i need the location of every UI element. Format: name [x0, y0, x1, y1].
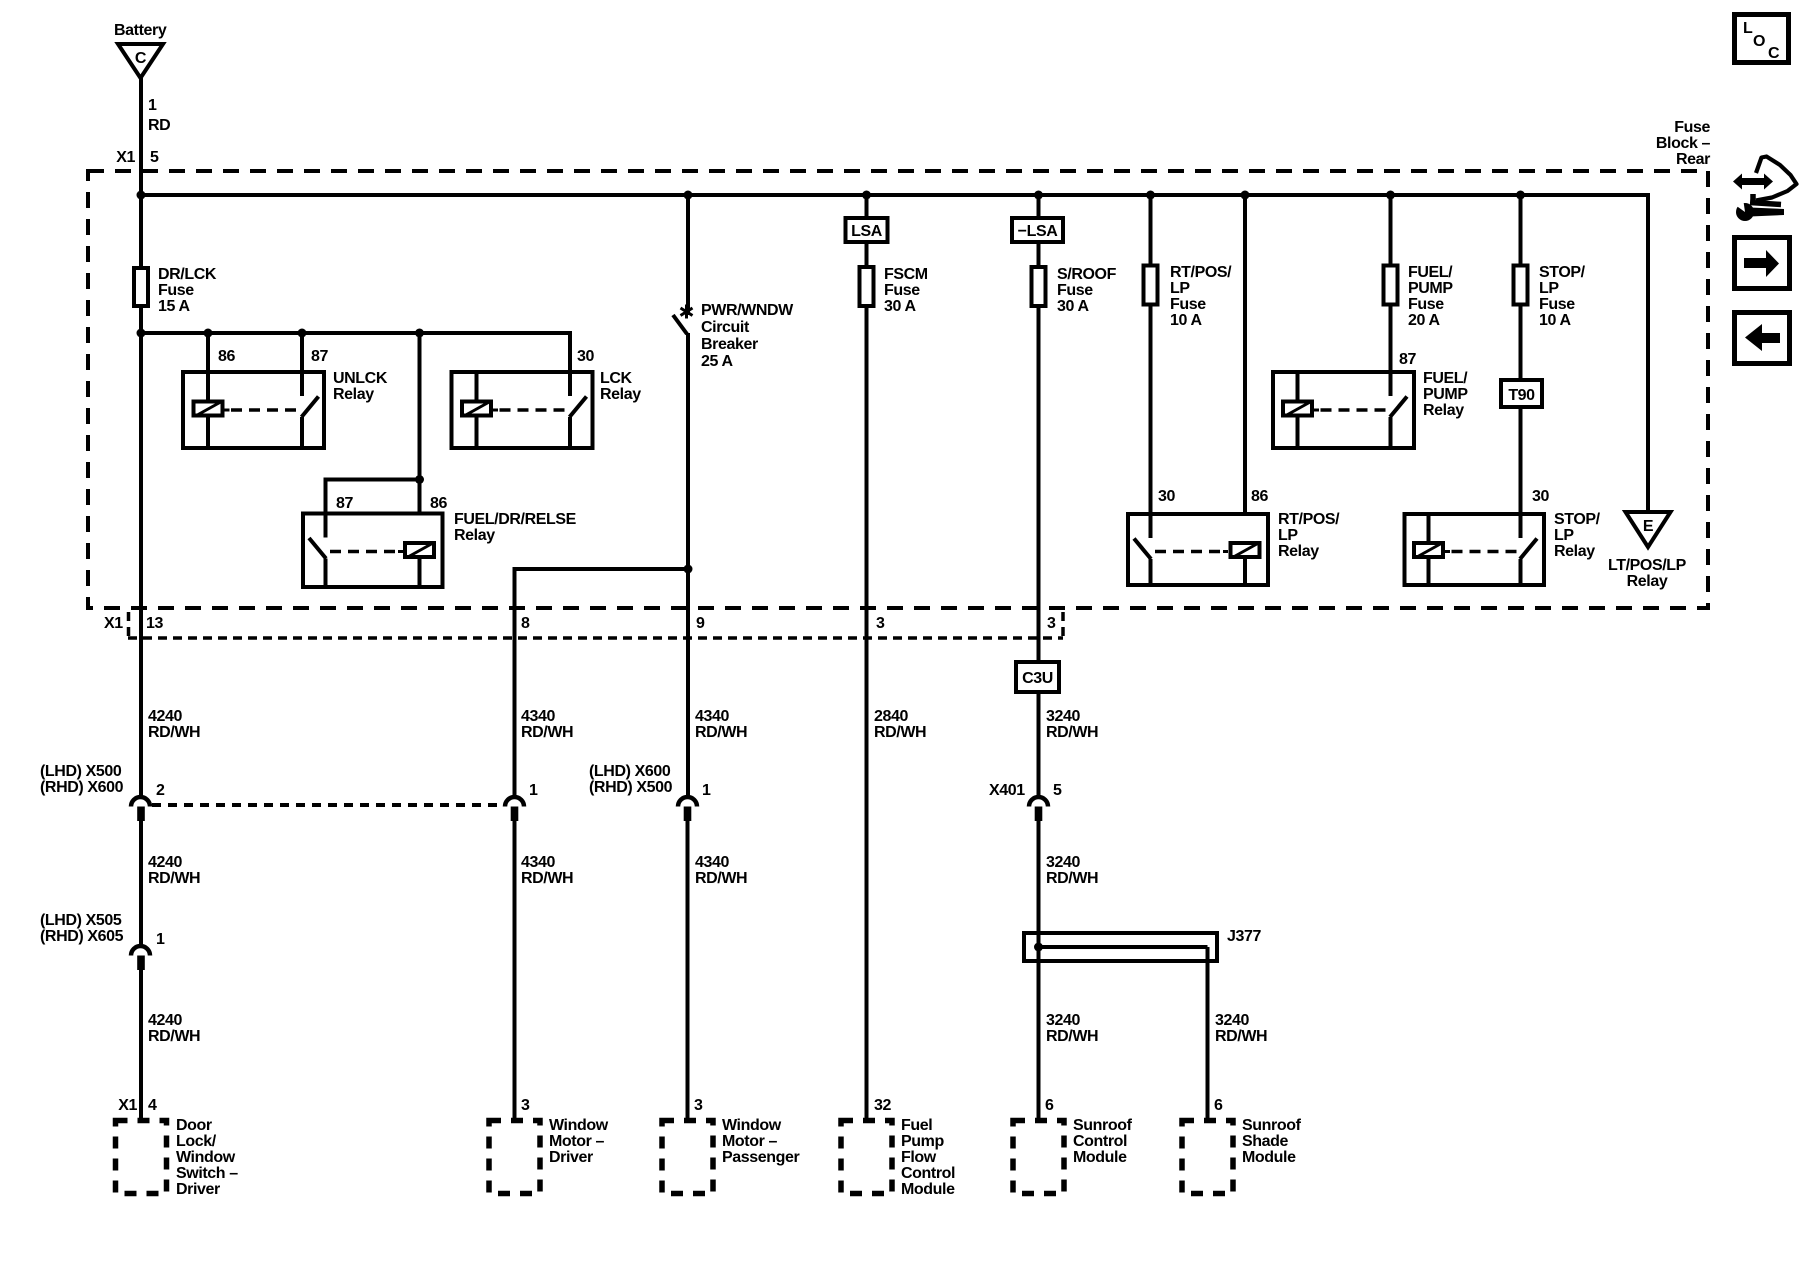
wire PWR/WNDW breaker upper: [686, 195, 690, 315]
svg-text:RD/WH: RD/WH: [1046, 870, 1098, 887]
svg-text:(LHD) X500: (LHD) X500: [40, 763, 122, 780]
svg-text:Switch –: Switch –: [176, 1165, 238, 1182]
junction dot bus RT/POS fuse: [1146, 191, 1155, 200]
svg-text:Block –: Block –: [1656, 135, 1711, 152]
svg-text:4: 4: [148, 1097, 157, 1114]
svg-text:RD/WH: RD/WH: [1046, 724, 1098, 741]
wire FUEL/PUMP column: [1389, 195, 1393, 370]
wire label 3240 RD/WH sunroof mid: [1046, 854, 1098, 887]
svg-text:(LHD) X505: (LHD) X505: [40, 912, 122, 929]
module Window Motor Passenger name label: [722, 1117, 800, 1166]
svg-text:PUMP: PUMP: [1408, 280, 1453, 297]
svg-text:1: 1: [148, 97, 157, 114]
svg-text:Relay: Relay: [333, 386, 374, 403]
svg-text:3240: 3240: [1046, 854, 1080, 871]
nav icon double arrow with wrench: [1731, 157, 1797, 222]
svg-text:Control: Control: [1073, 1133, 1127, 1150]
wire label 4240 RD/WH mid: [148, 854, 200, 887]
wire FSCM column: [865, 195, 869, 1118]
svg-text:RD: RD: [148, 117, 170, 134]
svg-text:LSA: LSA: [851, 223, 883, 240]
svg-text:3240: 3240: [1046, 1012, 1080, 1029]
breaker PWR/WNDW label: [701, 302, 794, 370]
ground symbol E triangle LT/POS/LP: [1626, 512, 1671, 547]
wire label 4240 RD/WH lower: [148, 1012, 200, 1045]
svg-text:C3U: C3U: [1022, 670, 1053, 687]
connector label X505/X605: [40, 912, 124, 945]
wire window motor driver lower: [513, 821, 517, 1118]
wire driver column below X500: [139, 821, 143, 946]
wire label 4240 RD/WH upper: [148, 708, 200, 741]
svg-text:PWR/WNDW: PWR/WNDW: [701, 302, 794, 319]
svg-text:Relay: Relay: [600, 386, 641, 403]
fuse STOP/LP label: [1539, 264, 1586, 329]
relay RT/POS/LP name label: [1278, 511, 1340, 560]
connector label X600/X500: [589, 763, 673, 796]
module Sunroof Shade name label: [1242, 1117, 1302, 1166]
fuse FUEL/PUMP: [1384, 266, 1398, 305]
wire UNLCK pin 86: [206, 333, 210, 370]
svg-text:4240: 4240: [148, 1012, 182, 1029]
wire label 4340 RD/WH passenger lower: [695, 854, 747, 887]
svg-text:(RHD) X605: (RHD) X605: [40, 928, 124, 945]
svg-text:20 A: 20 A: [1408, 312, 1440, 329]
svg-text:RT/POS/: RT/POS/: [1278, 511, 1340, 528]
fuse DR/LCK: [134, 268, 148, 306]
svg-text:X1: X1: [104, 615, 123, 632]
junction dot bus STOP/LP: [1516, 191, 1525, 200]
svg-text:1: 1: [156, 931, 165, 948]
svg-text:3: 3: [521, 1097, 530, 1114]
svg-text:RT/POS/: RT/POS/: [1170, 264, 1232, 281]
svg-text:32: 32: [874, 1097, 891, 1114]
wire DR/LCK column upper: [139, 195, 143, 266]
wire DR/LCK fuse to sub-bus: [139, 308, 143, 333]
wire FUEL/DR/RELSE pin 87 branch: [326, 480, 420, 512]
svg-text:3: 3: [694, 1097, 703, 1114]
relay STOP/LP name label: [1554, 511, 1601, 560]
module Fuel Pump Flow Control Module: [841, 1121, 892, 1194]
svg-text:LP: LP: [1539, 280, 1559, 297]
svg-text:Relay: Relay: [454, 527, 495, 544]
svg-text:87: 87: [311, 348, 328, 365]
module Window Motor Passenger: [662, 1121, 713, 1194]
svg-text:RD/WH: RD/WH: [695, 724, 747, 741]
module Window Motor Driver: [489, 1121, 540, 1194]
svg-text:1: 1: [702, 782, 711, 799]
svg-text:Relay: Relay: [1278, 543, 1319, 560]
svg-text:Breaker: Breaker: [701, 336, 758, 353]
svg-text:Motor –: Motor –: [722, 1133, 777, 1150]
LSA box: [846, 218, 888, 242]
svg-text:(RHD) X600: (RHD) X600: [40, 779, 124, 796]
svg-text:Flow: Flow: [901, 1149, 937, 1166]
circuit breaker PWR/WNDW symbol: [673, 305, 693, 335]
module Door Lock/Window Switch Driver: [116, 1121, 167, 1194]
wire sunroof control mid: [1037, 821, 1041, 1118]
svg-text:FUEL/: FUEL/: [1423, 370, 1468, 387]
svg-text:X401: X401: [989, 782, 1025, 799]
junction dot sub-bus left: [137, 329, 146, 338]
module Door Lock name label: [176, 1117, 238, 1198]
svg-text:3240: 3240: [1046, 708, 1080, 725]
svg-text:6: 6: [1045, 1097, 1054, 1114]
svg-text:4340: 4340: [695, 708, 729, 725]
svg-text:RD/WH: RD/WH: [695, 870, 747, 887]
svg-text:15 A: 15 A: [158, 298, 190, 315]
fuse block name label: [1656, 119, 1711, 168]
relay LCK: [452, 370, 593, 450]
svg-text:LP: LP: [1170, 280, 1190, 297]
relay LCK name label: [600, 370, 641, 403]
svg-text:25 A: 25 A: [701, 353, 733, 370]
svg-text:30 A: 30 A: [884, 298, 916, 315]
svg-text:RD/WH: RD/WH: [521, 724, 573, 741]
wire label 3240 RD/WH shade lower: [1215, 1012, 1267, 1045]
svg-text:4340: 4340: [521, 854, 555, 871]
wire label 1 RD: [148, 97, 170, 134]
svg-text:3: 3: [876, 615, 885, 632]
fuse S/ROOF label: [1057, 266, 1117, 315]
svg-text:Battery: Battery: [114, 22, 167, 39]
svg-text:FUEL/: FUEL/: [1408, 264, 1453, 281]
relay FUEL/PUMP name label: [1423, 370, 1468, 419]
svg-text:STOP/: STOP/: [1539, 264, 1586, 281]
fuse DR/LCK label: [158, 266, 217, 315]
module Window Motor Driver name label: [549, 1117, 609, 1166]
junction dot sub-bus UNLCK 87: [298, 329, 307, 338]
svg-text:Door: Door: [176, 1117, 212, 1134]
svg-text:13: 13: [146, 615, 163, 632]
svg-text:Relay: Relay: [1554, 543, 1595, 560]
svg-text:6: 6: [1214, 1097, 1223, 1114]
svg-text:2: 2: [156, 782, 165, 799]
svg-text:RD/WH: RD/WH: [1215, 1028, 1267, 1045]
relay FUEL/DR/RELSE name label: [454, 511, 577, 544]
svg-text:Passenger: Passenger: [722, 1149, 800, 1166]
junction dot pin 87 branch: [415, 475, 424, 484]
wire driver column lower: [139, 970, 143, 1118]
inline connector X401 pin 5: [1029, 797, 1048, 821]
svg-text:RD/WH: RD/WH: [874, 724, 926, 741]
svg-text:86: 86: [430, 495, 447, 512]
wire label 2840 RD/WH: [874, 708, 926, 741]
fuse RT/POS/LP label: [1170, 264, 1232, 329]
sub-bus wire to LCK relay: [141, 333, 570, 370]
fuse RT/POS/LP: [1144, 266, 1158, 305]
wire STOP/LP column: [1519, 195, 1523, 512]
wire RT/POS fuse column: [1149, 195, 1153, 512]
svg-text:86: 86: [1251, 488, 1268, 505]
junction dot bus RT/POS relay coil: [1241, 191, 1250, 200]
inline connector passenger pin 1: [678, 797, 697, 821]
svg-text:Shade: Shade: [1242, 1133, 1289, 1150]
svg-text:Rear: Rear: [1676, 151, 1710, 168]
svg-text:3240: 3240: [1215, 1012, 1249, 1029]
svg-text:5: 5: [1053, 782, 1062, 799]
svg-text:(LHD) X600: (LHD) X600: [589, 763, 671, 780]
relay LT/POS/LP name label: [1608, 557, 1687, 590]
svg-text:LCK: LCK: [600, 370, 633, 387]
svg-text:30: 30: [1532, 488, 1549, 505]
svg-text:T90: T90: [1508, 387, 1535, 404]
svg-text:Relay: Relay: [1627, 573, 1668, 590]
svg-text:10 A: 10 A: [1539, 312, 1571, 329]
inline connector X500 pin 2: [131, 797, 150, 821]
wire label 4340 RD/WH driver motor upper: [521, 708, 573, 741]
relay FUEL/DR/RELSE: [303, 512, 443, 590]
svg-text:Window: Window: [176, 1149, 236, 1166]
svg-text:PUMP: PUMP: [1423, 386, 1468, 403]
svg-text:Pump: Pump: [901, 1133, 944, 1150]
junction dot bus PWR/WNDW: [684, 191, 693, 200]
svg-text:3: 3: [1047, 615, 1056, 632]
wire label 3240 RD/WH control lower: [1046, 1012, 1098, 1045]
svg-text:X1: X1: [118, 1097, 137, 1114]
main bus wire: [141, 195, 1648, 512]
svg-text:4240: 4240: [148, 708, 182, 725]
junction dot bus at battery: [137, 191, 146, 200]
svg-text:87: 87: [1399, 351, 1416, 368]
svg-text:86: 86: [218, 348, 235, 365]
svg-text:5: 5: [150, 149, 159, 166]
svg-text:87: 87: [336, 495, 353, 512]
fuse block dashed border: [88, 171, 1708, 608]
wire label 3240 RD/WH sunroof upper: [1046, 708, 1098, 741]
relay UNLCK: [183, 370, 324, 450]
svg-text:O: O: [1753, 33, 1765, 50]
nav icon right arrow box: [1735, 238, 1790, 289]
fuse FSCM: [860, 267, 874, 306]
svg-text:4240: 4240: [148, 854, 182, 871]
junction dot bus FUEL/PUMP: [1386, 191, 1395, 200]
svg-text:(RHD) X500: (RHD) X500: [589, 779, 673, 796]
fuse STOP/LP: [1514, 266, 1528, 305]
module Fuel Pump name label: [901, 1117, 955, 1198]
wire label 4340 RD/WH driver motor lower: [521, 854, 573, 887]
svg-text:Sunroof: Sunroof: [1073, 1117, 1133, 1134]
svg-text:Window: Window: [722, 1117, 782, 1134]
svg-text:Fuse: Fuse: [1057, 282, 1093, 299]
connector X1 pin 5 labels: [116, 149, 159, 166]
inline connector X505 pin 1: [131, 946, 150, 970]
svg-text:Circuit: Circuit: [701, 319, 750, 336]
svg-text:Driver: Driver: [549, 1149, 593, 1166]
svg-text:C: C: [1768, 45, 1780, 62]
svg-text:L: L: [1743, 20, 1753, 37]
wire RT/POS relay coil column: [1243, 195, 1247, 543]
-LSA box: [1012, 218, 1063, 242]
svg-text:9: 9: [696, 615, 705, 632]
fuse FUEL/PUMP label: [1408, 264, 1453, 329]
fuse S/ROOF: [1032, 267, 1046, 306]
relay FUEL/PUMP: [1273, 370, 1414, 450]
svg-text:Fuse: Fuse: [884, 282, 920, 299]
svg-text:LP: LP: [1278, 527, 1298, 544]
svg-text:RD/WH: RD/WH: [148, 1028, 200, 1045]
module Sunroof Control name label: [1073, 1117, 1133, 1166]
svg-text:RD/WH: RD/WH: [1046, 1028, 1098, 1045]
svg-text:Fuse: Fuse: [1170, 296, 1206, 313]
svg-text:Fuse: Fuse: [158, 282, 194, 299]
junction dot sub-bus FUEL/DR/RELSE: [415, 329, 424, 338]
wire branch to window motor driver: [515, 569, 689, 796]
nav icon LOC box: [1735, 15, 1789, 63]
svg-text:Fuse: Fuse: [1408, 296, 1444, 313]
svg-text:STOP/: STOP/: [1554, 511, 1601, 528]
relay RT/POS/LP: [1128, 512, 1268, 587]
svg-text:S/ROOF: S/ROOF: [1057, 266, 1117, 283]
wire driver column mid: [139, 333, 143, 796]
svg-text:30: 30: [1158, 488, 1175, 505]
splice pack J377: [1024, 931, 1217, 963]
svg-text:J377: J377: [1227, 928, 1261, 945]
svg-text:FSCM: FSCM: [884, 266, 928, 283]
junction dot window driver branch: [684, 565, 693, 574]
junction dot sub-bus UNLCK 86: [204, 329, 213, 338]
wire sunroof shade branch: [1206, 947, 1210, 1118]
relay UNLCK name label: [333, 370, 388, 403]
svg-text:Module: Module: [901, 1181, 955, 1198]
wire window motor passenger lower: [686, 821, 690, 1118]
relay STOP/LP: [1405, 512, 1545, 587]
svg-text:8: 8: [521, 615, 530, 632]
svg-text:Module: Module: [1242, 1149, 1296, 1166]
svg-text:LP: LP: [1554, 527, 1574, 544]
wire label 4340 RD/WH passenger upper: [695, 708, 747, 741]
svg-text:Fuel: Fuel: [901, 1117, 932, 1134]
svg-text:X1: X1: [116, 149, 135, 166]
module pin labels X1 4: [118, 1097, 157, 1114]
svg-text:UNLCK: UNLCK: [333, 370, 388, 387]
wire FUEL/DR/RELSE pin 86 from sub-bus: [418, 333, 422, 543]
wire battery to bus: [139, 78, 143, 195]
svg-text:4340: 4340: [521, 708, 555, 725]
junction dot bus FSCM: [862, 191, 871, 200]
svg-text:Module: Module: [1073, 1149, 1127, 1166]
svg-text:Motor –: Motor –: [549, 1133, 604, 1150]
svg-text:2840: 2840: [874, 708, 908, 725]
svg-text:RD/WH: RD/WH: [148, 870, 200, 887]
junction dot bus S/ROOF: [1034, 191, 1043, 200]
connector X1 pin 13 labels: [104, 615, 163, 632]
svg-text:E: E: [1643, 518, 1654, 535]
fuse FSCM label: [884, 266, 928, 315]
svg-text:RD/WH: RD/WH: [521, 870, 573, 887]
svg-text:Window: Window: [549, 1117, 609, 1134]
svg-text:RD/WH: RD/WH: [148, 724, 200, 741]
battery symbol C triangle: [118, 44, 163, 78]
inline connector dashed link: [152, 803, 503, 807]
svg-text:1: 1: [529, 782, 538, 799]
C3U box: [1016, 662, 1059, 692]
svg-text:Driver: Driver: [176, 1181, 220, 1198]
svg-text:Fuse: Fuse: [1674, 119, 1710, 136]
svg-text:4340: 4340: [695, 854, 729, 871]
svg-text:Relay: Relay: [1423, 402, 1464, 419]
svg-text:−LSA: −LSA: [1018, 223, 1059, 240]
module Sunroof Control Module: [1013, 1121, 1064, 1194]
svg-text:LT/POS/LP: LT/POS/LP: [1608, 557, 1687, 574]
svg-text:C: C: [135, 50, 147, 67]
connector X1 bottom strip: [128, 612, 1063, 640]
svg-text:10 A: 10 A: [1170, 312, 1202, 329]
svg-text:Control: Control: [901, 1165, 955, 1182]
wire UNLCK pin 87: [300, 333, 304, 370]
connector label X500/X600: [40, 763, 124, 796]
svg-text:Fuse: Fuse: [1539, 296, 1575, 313]
svg-text:FUEL/DR/RELSE: FUEL/DR/RELSE: [454, 511, 577, 528]
svg-text:DR/LCK: DR/LCK: [158, 266, 217, 283]
module Sunroof Shade Module: [1182, 1121, 1233, 1194]
nav icon left arrow box: [1735, 313, 1790, 364]
wire PWR/WNDW breaker lower: [686, 333, 690, 796]
svg-text:Sunroof: Sunroof: [1242, 1117, 1302, 1134]
wire S/ROOF column upper: [1037, 195, 1041, 796]
svg-text:Lock/: Lock/: [176, 1133, 217, 1150]
svg-text:30 A: 30 A: [1057, 298, 1089, 315]
svg-text:30: 30: [577, 348, 594, 365]
inline connector window motor driver pin 1: [505, 797, 524, 821]
T90 box: [1501, 380, 1542, 407]
